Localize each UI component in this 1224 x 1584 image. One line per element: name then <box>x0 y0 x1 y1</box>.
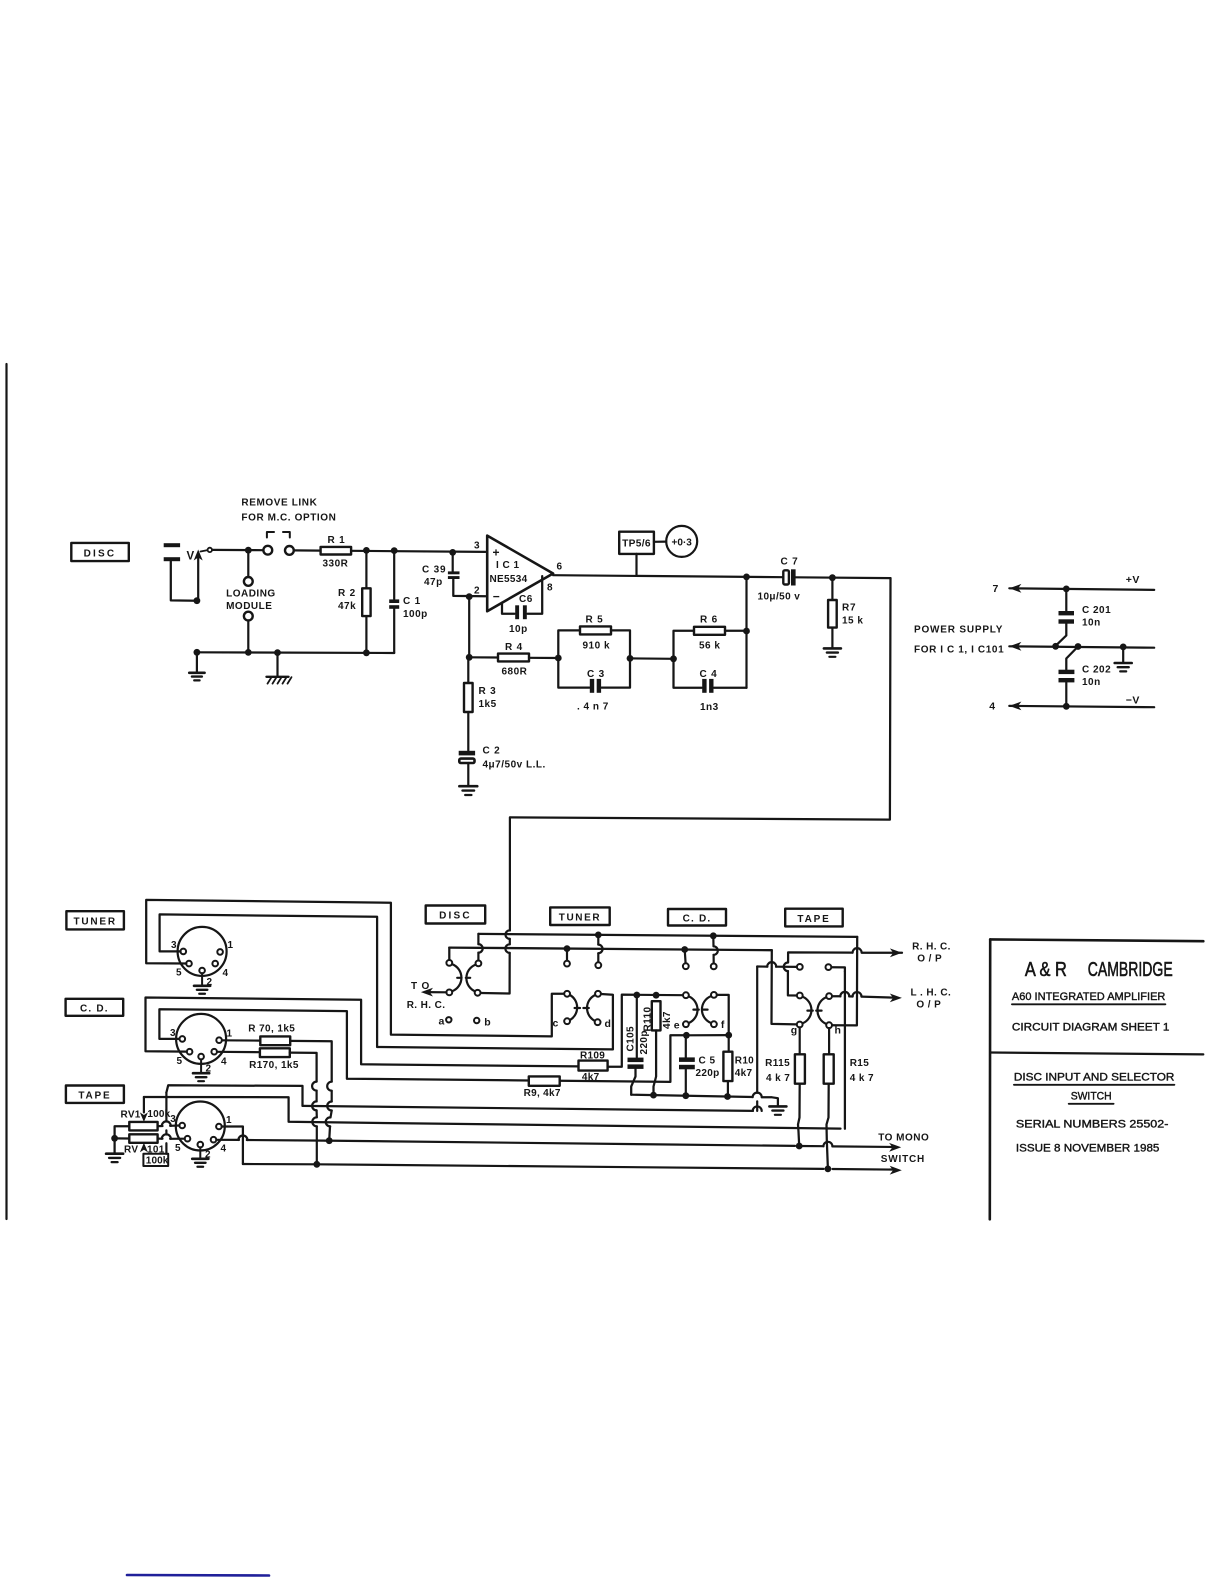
svg-text:O / P: O / P <box>917 954 942 965</box>
R5 C3 feedback block <box>558 630 580 658</box>
svg-text:−: − <box>493 590 500 604</box>
svg-text:CAMBRIDGE: CAMBRIDGE <box>1088 959 1173 981</box>
wire TUNER pin3 to d contact <box>160 914 613 1049</box>
svg-text:a: a <box>439 1016 445 1028</box>
svg-text:. 4 n 7: . 4 n 7 <box>577 702 609 713</box>
svg-text:220p: 220p <box>639 1030 650 1054</box>
wire R6 block right vertical <box>745 577 747 688</box>
svg-text:c: c <box>553 1018 559 1030</box>
wire mono switch line lower <box>243 1163 317 1166</box>
svg-text:e: e <box>674 1020 680 1032</box>
junction dot R115 to mono line <box>796 1143 803 1150</box>
TAPE switch wiper g <box>797 993 803 999</box>
op-amp IC1 NE5534 <box>487 536 553 612</box>
TAPE DIN ground <box>199 1147 201 1158</box>
svg-text:4k7: 4k7 <box>735 1068 753 1079</box>
svg-text:10n: 10n <box>1082 618 1101 629</box>
svg-text:R170, 1k5: R170, 1k5 <box>249 1060 299 1071</box>
svg-text:FOR I C 1, I C101: FOR I C 1, I C101 <box>914 645 1004 656</box>
junction dot mid rail C202 <box>1075 643 1082 650</box>
junction dot mid rail C201 <box>1052 643 1059 650</box>
TAPE DIN pin 2 <box>198 1142 204 1148</box>
TUNER switch wiper d <box>595 991 601 997</box>
junction dot C201 top <box>1063 586 1070 593</box>
potentiometer RV1 <box>129 1122 157 1131</box>
svg-text:3: 3 <box>170 1028 176 1039</box>
DISC selector label box <box>426 906 486 924</box>
C.D. DIN socket <box>176 1014 226 1064</box>
junction dot ground rail left <box>194 649 201 656</box>
svg-text:C 4: C 4 <box>700 669 718 680</box>
TAPE selector label box <box>785 909 843 927</box>
DISC switch contact b bottom <box>475 990 481 996</box>
svg-text:R 70, 1k5: R 70, 1k5 <box>248 1024 295 1035</box>
TUNER DIN pin 1 <box>217 949 223 955</box>
svg-text:+0·3: +0·3 <box>672 538 693 549</box>
C.D. DIN pin 1 <box>216 1037 222 1043</box>
junction dot R170 to switch line <box>313 1161 320 1168</box>
resistor R110 <box>652 1001 661 1030</box>
svg-text:10μ/50 v: 10μ/50 v <box>758 592 801 603</box>
page left edge line <box>5 364 7 1219</box>
svg-text:1: 1 <box>226 1115 232 1126</box>
svg-text:TUNER: TUNER <box>559 912 601 923</box>
svg-text:−V: −V <box>1126 695 1140 707</box>
svg-text:REMOVE LINK: REMOVE LINK <box>241 498 317 509</box>
svg-text:d: d <box>605 1018 611 1030</box>
svg-text:h: h <box>835 1025 841 1037</box>
svg-text:10p: 10p <box>509 624 528 635</box>
svg-text:47k: 47k <box>338 601 356 612</box>
svg-text:5: 5 <box>176 1056 182 1067</box>
svg-text:100k: 100k <box>146 1156 169 1167</box>
svg-text:4 k 7: 4 k 7 <box>766 1073 790 1084</box>
wire tape return to g stub <box>757 965 767 967</box>
svg-text:A60 INTEGRATED AMPLIFIER: A60 INTEGRATED AMPLIFIER <box>1012 991 1166 1003</box>
wire R70 to mono line <box>290 1041 332 1082</box>
svg-text:ISSUE 8 NOVEMBER 1985: ISSUE 8 NOVEMBER 1985 <box>1016 1143 1160 1155</box>
svg-text:C 5: C 5 <box>699 1056 716 1067</box>
RV101 value box <box>143 1154 168 1166</box>
page bottom blue mark <box>127 1574 269 1577</box>
junction dot R15 to switch line <box>825 1166 832 1173</box>
svg-text:R15: R15 <box>850 1058 870 1069</box>
wire h stub to monitor vertical <box>831 967 845 971</box>
DISC switch wiper a <box>452 964 461 991</box>
svg-text:T O: T O <box>411 981 430 992</box>
wire RV1 left to ground <box>115 1126 130 1153</box>
capacitor C202 <box>1066 647 1078 670</box>
C.D. DIN ground <box>200 1059 202 1072</box>
resistor R2 <box>365 550 367 588</box>
C.D. DIN pin 2 <box>198 1054 204 1060</box>
svg-text:R 1: R 1 <box>328 535 346 546</box>
svg-text:4: 4 <box>223 968 229 979</box>
C.D. selector label box <box>668 909 726 926</box>
wire R.H.C. output <box>862 952 902 954</box>
svg-text:R109: R109 <box>580 1051 605 1062</box>
C.D. switch wiper e <box>683 992 689 998</box>
svg-text:8: 8 <box>547 583 553 594</box>
svg-text:1n3: 1n3 <box>700 702 719 713</box>
junction dot C39 tap <box>449 549 456 556</box>
junction dot R7 tap <box>829 574 836 581</box>
wire C7 to R7 node <box>796 576 891 579</box>
junction dot R110 top <box>653 992 660 999</box>
junction dot R2 return <box>363 649 370 656</box>
ground symbol R7 <box>824 647 841 650</box>
svg-text:RV1: RV1 <box>121 1110 141 1121</box>
svg-text:10n: 10n <box>1082 677 1101 688</box>
DISC switch contact b top <box>477 934 479 944</box>
wire C.D. pin3 to R9 <box>159 1009 528 1080</box>
test point TP5/6 box <box>619 532 654 554</box>
svg-text:FOR M.C. OPTION: FOR M.C. OPTION <box>241 513 336 524</box>
junction dot bus L C.D. <box>681 946 688 953</box>
DISC position marker b <box>474 1018 479 1023</box>
svg-text:+: + <box>493 546 500 560</box>
wire V to input circle <box>201 550 208 551</box>
ground symbol RV pots <box>106 1152 123 1155</box>
capacitor C201 <box>1065 589 1067 611</box>
junction dot C5 return <box>682 1092 689 1099</box>
svg-text:910 k: 910 k <box>583 641 611 652</box>
svg-text:g: g <box>791 1025 797 1037</box>
svg-text:C 39: C 39 <box>422 565 446 576</box>
capacitor C2 electrolytic <box>459 751 475 756</box>
ground symbol C2 <box>459 785 477 788</box>
resistor R70 <box>222 1039 260 1041</box>
bus L channel <box>449 948 772 951</box>
junction dot bus R C.D. <box>710 932 717 939</box>
bus R channel <box>478 934 857 937</box>
wire R5 block to R6 block <box>630 657 674 660</box>
svg-text:R 6: R 6 <box>700 615 718 626</box>
TUNER DIN pin 2 <box>199 968 205 974</box>
junction dot R2 tap <box>363 547 370 554</box>
wire RV junction vertical <box>165 1093 167 1122</box>
svg-text:4: 4 <box>221 1144 227 1155</box>
svg-text:R7: R7 <box>842 603 856 614</box>
svg-text:1k5: 1k5 <box>479 699 497 710</box>
svg-text:4μ7/50v L.L.: 4μ7/50v L.L. <box>483 760 546 771</box>
svg-text:MODULE: MODULE <box>226 601 272 612</box>
junction dot mid rail ground <box>1120 644 1127 651</box>
svg-text:SWITCH: SWITCH <box>1071 1091 1112 1103</box>
svg-text:RV: RV <box>124 1145 138 1156</box>
svg-text:SWITCH: SWITCH <box>881 1154 925 1165</box>
svg-text:R 2: R 2 <box>338 588 356 599</box>
TAPE monitor stub h <box>826 964 832 970</box>
svg-text:R9, 4k7: R9, 4k7 <box>524 1088 561 1099</box>
svg-text:7: 7 <box>993 583 999 595</box>
TUNER DIN ground <box>201 973 203 985</box>
svg-text:C 3: C 3 <box>587 669 605 680</box>
svg-text:4 k 7: 4 k 7 <box>850 1073 874 1084</box>
resistor R7 <box>831 578 833 600</box>
TUNER DIN pin 5 <box>186 961 192 967</box>
TUNER DIN pin 3 <box>181 949 187 955</box>
svg-text:TAPE: TAPE <box>797 914 830 925</box>
wire R1 to opamp input <box>351 551 485 552</box>
C.D. DIN pin 5 <box>187 1049 193 1055</box>
capacitor C39 <box>452 552 454 571</box>
TAPE DIN pin 1 <box>216 1124 222 1130</box>
svg-text:5: 5 <box>175 1143 181 1154</box>
wire bus R to TAPE h <box>832 937 857 1026</box>
wire C105 R110 to e contact <box>637 994 683 997</box>
svg-text:SERIAL NUMBERS 25502-: SERIAL NUMBERS 25502- <box>1016 1119 1169 1131</box>
junction dot inverting input <box>466 593 473 600</box>
svg-text:330R: 330R <box>323 559 349 570</box>
svg-text:C 2: C 2 <box>483 746 501 757</box>
svg-text:I C 1: I C 1 <box>496 560 520 571</box>
test voltage circle +0.3 <box>666 526 697 557</box>
capacitor C5 <box>685 1035 687 1057</box>
resistor R4 <box>468 597 470 658</box>
TAPE DIN socket <box>176 1102 225 1151</box>
junction dot on cartridge return <box>194 597 201 604</box>
C.D. switch stub L <box>684 950 687 964</box>
junction dot bus L TUNER <box>564 945 571 952</box>
svg-text:R. H. C.: R. H. C. <box>407 1000 446 1011</box>
resistor R9 <box>529 1076 560 1085</box>
svg-text:L . H. C.: L . H. C. <box>911 987 952 998</box>
DISC position marker a <box>446 1017 451 1022</box>
TAPE wiper coupling dashes <box>807 1009 821 1011</box>
svg-text:1: 1 <box>228 940 234 951</box>
capacitor C6 feedback <box>502 603 515 614</box>
DISC switch contact a top <box>448 948 450 960</box>
junction dot bus R TUNER <box>595 932 602 939</box>
capacitor C105 <box>636 995 638 1057</box>
svg-text:4: 4 <box>221 1057 227 1068</box>
svg-text:TAPE: TAPE <box>78 1091 111 1102</box>
TUNER selector label box <box>550 907 610 925</box>
wire L.H.C. output <box>832 995 841 997</box>
svg-text:A & R: A & R <box>1025 959 1067 981</box>
svg-text:R. H. C.: R. H. C. <box>912 941 951 952</box>
wire tape return R vertical <box>756 967 758 1093</box>
svg-text:C 7: C 7 <box>781 557 799 568</box>
svg-text:TP5/6: TP5/6 <box>622 539 651 550</box>
capacitor C1 <box>393 551 395 599</box>
DISC switch contact a bottom <box>446 990 452 996</box>
svg-text:C 201: C 201 <box>1082 605 1111 616</box>
ground rail wire <box>197 651 394 654</box>
loading module <box>247 550 249 577</box>
svg-text:DISC INPUT AND SELECTOR: DISC INPUT AND SELECTOR <box>1014 1072 1175 1084</box>
wire TAPE pin4 to mono line <box>216 1139 239 1141</box>
C.D. DIN pin 3 <box>180 1036 186 1042</box>
svg-text:2: 2 <box>474 586 480 597</box>
wire left mono feed <box>303 1106 754 1111</box>
rail -V <box>1009 706 1154 707</box>
ground symbol input stage <box>196 652 198 672</box>
junction dot R70 to mono line <box>326 1137 333 1144</box>
wire C.D. pin5 to R109 <box>146 998 579 1067</box>
TUNER DIN pin 4 <box>212 961 218 967</box>
wire R109 to C.D. bus <box>608 995 637 1067</box>
wire TUNER pin5 to c contact <box>146 900 564 1037</box>
C.D. switch stub R <box>712 936 714 946</box>
TUNER switch stub L <box>566 949 568 961</box>
wire TP box to voltage circle <box>654 540 666 542</box>
junction dot C5 top <box>683 1032 690 1039</box>
resistor R15 <box>828 1028 830 1054</box>
resistor R109 <box>579 1061 608 1071</box>
wire to R.H.C. preamp <box>426 991 446 993</box>
svg-text:5: 5 <box>176 968 182 979</box>
wire TAPE pin1 to switch line <box>222 1127 243 1165</box>
svg-text:47p: 47p <box>424 577 443 588</box>
wire bus L to TAPE g <box>772 950 797 1024</box>
resistor R115 <box>799 1027 801 1054</box>
TAPE DIN pin 5 <box>185 1136 191 1142</box>
wire RV1 wiper to tape monitor L <box>144 1097 841 1129</box>
TAPE switch wiper h <box>826 993 832 999</box>
svg-text:C6: C6 <box>519 594 533 605</box>
wire cartridge to ground rail <box>171 561 197 601</box>
C.D. wiper coupling dashes <box>693 1008 707 1010</box>
wire R9 to C5 R10 node <box>560 1035 687 1082</box>
DISC switch wiper b <box>466 965 475 992</box>
wire RV101 to TAPE pin5 <box>158 1137 163 1139</box>
junction dot loading module return <box>245 649 252 656</box>
TUNER switch wiper c <box>564 991 570 997</box>
svg-text:DISC: DISC <box>439 911 472 922</box>
svg-text:680R: 680R <box>502 667 528 678</box>
node V input arrow <box>197 558 199 601</box>
svg-text:C. D.: C. D. <box>80 1004 109 1015</box>
wire RV1 to TAPE pin3 <box>158 1125 163 1127</box>
C.D. input label box <box>66 999 124 1016</box>
rail +V <box>1009 588 1154 590</box>
svg-text:b: b <box>484 1016 490 1028</box>
TUNER wiper coupling dashes <box>575 1007 589 1009</box>
svg-text:100p: 100p <box>403 609 428 620</box>
svg-text:NE5534: NE5534 <box>490 574 528 585</box>
junction dot R10 return <box>724 1093 731 1100</box>
svg-text:1: 1 <box>227 1029 233 1040</box>
junction dot R110 return <box>650 1092 657 1099</box>
wire phono to DISC switch <box>509 817 511 930</box>
svg-text:3: 3 <box>171 940 177 951</box>
rail mid supply <box>1009 646 1154 647</box>
svg-text:DISC: DISC <box>84 549 117 560</box>
DISC wiper coupling dashes <box>457 977 470 979</box>
TUNER switch stub R <box>597 935 599 945</box>
svg-text:R110: R110 <box>643 1007 654 1032</box>
wire R170 to switch line <box>290 1053 317 1082</box>
wire phono output long run <box>510 578 890 820</box>
svg-text:POWER SUPPLY: POWER SUPPLY <box>914 625 1003 636</box>
wire RV101 left <box>115 1137 130 1139</box>
junction dot C105 top <box>633 992 640 999</box>
svg-text:C 202: C 202 <box>1082 665 1111 676</box>
wire C5 node to R10 node <box>686 1034 728 1036</box>
svg-text:f: f <box>721 1019 725 1031</box>
TAPE input label box <box>66 1086 124 1103</box>
ground symbol filter rail <box>769 1105 786 1108</box>
C.D. switch wiper f <box>711 992 717 998</box>
title block border <box>990 939 1203 941</box>
cartridge pickup symbol <box>164 543 180 547</box>
svg-text:R 4: R 4 <box>505 642 523 653</box>
wire TP5/6 to output <box>635 554 637 576</box>
svg-text:220p: 220p <box>696 1068 720 1079</box>
removable link dashed bracket <box>267 532 290 538</box>
svg-text:TUNER: TUNER <box>73 917 116 928</box>
svg-text:C 1: C 1 <box>403 596 421 607</box>
svg-text:CIRCUIT DIAGRAM SHEET 1: CIRCUIT DIAGRAM SHEET 1 <box>1012 1022 1170 1034</box>
TUNER DIN socket <box>178 927 227 976</box>
svg-text:+V: +V <box>1126 574 1140 586</box>
junction dot RV1 RV101 ground <box>111 1135 118 1142</box>
chassis ground symbol <box>276 653 278 677</box>
wire link to R1 <box>294 549 321 551</box>
svg-text:V: V <box>187 551 195 563</box>
junction dot chassis tap <box>274 649 281 656</box>
R6 C4 feedback block <box>674 631 695 659</box>
svg-text:R 3: R 3 <box>479 686 497 697</box>
svg-text:4: 4 <box>989 701 995 713</box>
link terminal circle right <box>285 546 294 555</box>
C.D. DIN pin 4 <box>211 1049 217 1055</box>
svg-text:O / P: O / P <box>916 1000 941 1011</box>
ground symbol supply mid rail <box>1122 647 1124 663</box>
input rail wire <box>212 549 263 551</box>
resistor R3 <box>467 657 469 683</box>
wire f contact to R10 <box>717 995 729 1035</box>
svg-text:3: 3 <box>474 541 480 552</box>
svg-text:TO MONO: TO MONO <box>878 1133 929 1144</box>
resistor R1 <box>321 547 352 555</box>
DISC input label box <box>71 543 129 561</box>
TAPE DIN pin 4 <box>211 1137 217 1143</box>
resistor R170 <box>217 1051 260 1054</box>
svg-text:R115: R115 <box>765 1058 790 1069</box>
link terminal circle left <box>263 546 272 555</box>
TAPE DIN pin 3 <box>179 1123 185 1129</box>
TAPE monitor stub g <box>797 964 803 970</box>
capacitor C7 electrolytic <box>783 570 789 584</box>
wire RV vertical to mono bus <box>166 1085 302 1106</box>
svg-text:LOADING: LOADING <box>226 589 276 600</box>
input terminal circle <box>208 548 212 552</box>
svg-text:4k7: 4k7 <box>662 1011 673 1029</box>
resistor R10 <box>728 1035 730 1052</box>
svg-text:56 k: 56 k <box>699 641 720 652</box>
potentiometer RV101 <box>129 1134 157 1143</box>
svg-text:15 k: 15 k <box>842 616 863 627</box>
rail filter return <box>631 1095 752 1097</box>
svg-text:C. D.: C. D. <box>683 914 712 925</box>
TUNER input label box <box>66 911 124 929</box>
junction dot output node <box>743 574 750 581</box>
junction dot R10 top <box>725 1032 732 1039</box>
svg-text:6: 6 <box>557 562 563 573</box>
svg-text:R10: R10 <box>735 1056 754 1067</box>
svg-text:C105: C105 <box>626 1026 637 1052</box>
junction dot loading module tap <box>245 547 252 554</box>
junction dot C202 bottom <box>1063 703 1070 710</box>
op-amp output wire <box>553 575 783 577</box>
junction dot C1 tap <box>391 547 398 554</box>
svg-text:R 5: R 5 <box>586 615 604 626</box>
